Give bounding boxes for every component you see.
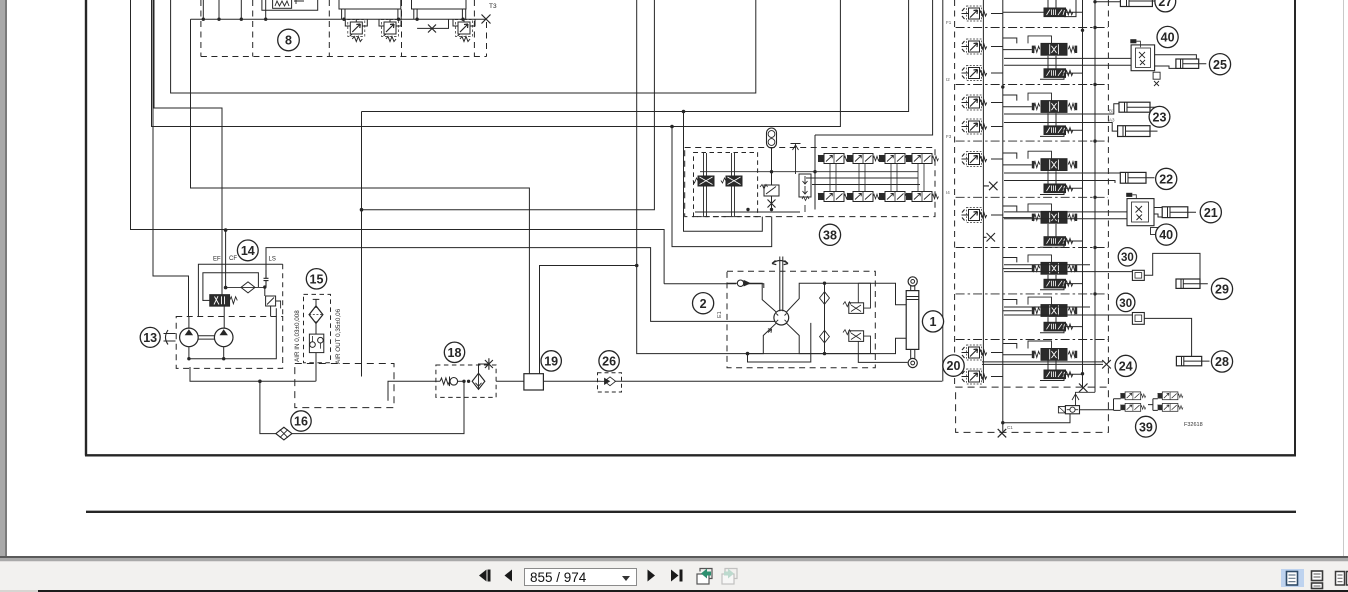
circle 23 (1149, 106, 1170, 127)
group 14 circle (237, 240, 258, 261)
page border frame right (1294, 0, 1296, 455)
S2 spool (1032, 43, 1077, 55)
footer rule (86, 511, 1296, 513)
S5 out wires to block 40 (1004, 212, 1127, 219)
svg-text:2: 2 (700, 297, 707, 311)
flow control valve 14 (203, 295, 237, 306)
pump P2 (214, 328, 233, 347)
junction dot (1081, 372, 1084, 375)
circle 22 (1156, 168, 1177, 189)
pressure bus tail (1002, 423, 1004, 432)
svg-text:21: 21 (1204, 206, 1218, 220)
plug line with X (417, 19, 448, 28)
X plug bottom (998, 429, 1007, 438)
bank tank bus B (1094, 0, 1096, 392)
S8 double outlet wire (982, 362, 1103, 365)
plugged port X (428, 25, 436, 33)
bus rail low (812, 184, 920, 186)
circle 15 (306, 269, 326, 289)
circle 39 (1136, 416, 1157, 437)
junction dot (1093, 0, 1096, 3)
svg-text:40: 40 (1161, 31, 1175, 45)
cylinder 22 (1120, 172, 1154, 183)
S1 comp wires (1003, 0, 1083, 17)
svg-text:20: 20 (947, 359, 961, 373)
continuous scroll icon (1312, 571, 1323, 589)
R8b port wires (379, 19, 401, 26)
single page view icon active (1281, 569, 1304, 587)
R8a port wires (345, 19, 367, 26)
S8 relief lower wire (991, 376, 1003, 378)
circle 30 lower (1117, 293, 1135, 311)
S2 relief lower wire (991, 72, 1003, 74)
S8 relief upper wire (991, 352, 1003, 354)
S3 comp wires (1040, 113, 1083, 136)
S8 comp wires (1040, 360, 1083, 380)
section divider 3 (956, 140, 1108, 142)
cylinder 29 (1176, 279, 1208, 288)
svg-text:23: 23 (1153, 110, 1167, 124)
S2 relief lower (962, 66, 987, 81)
circle 25 (1209, 54, 1230, 75)
solenoid valve 38 c3 top (879, 154, 912, 164)
cylinder 1 body (906, 291, 919, 350)
steering wheel symbol (772, 261, 788, 265)
wire y111.5 rail (362, 0, 909, 112)
circle 40 lower (1156, 224, 1177, 245)
manifold bus wire y19.2 (191, 18, 487, 20)
junction dot (258, 380, 262, 384)
svg-text:13: 13 (143, 331, 157, 345)
svg-text:I4: I4 (946, 190, 950, 195)
svg-text:T3: T3 (489, 3, 497, 10)
gauge tap 38 (791, 144, 801, 175)
S8 relief upper (962, 345, 987, 360)
S1 compensator (1044, 8, 1073, 17)
svg-text:8: 8 (285, 34, 292, 48)
bus rail mid (806, 177, 918, 179)
steering rotor (774, 310, 789, 325)
block 40b (1126, 193, 1157, 235)
S5 relief (962, 208, 987, 223)
cylinder 1 top stub (911, 286, 915, 291)
steering drain y362.3 (858, 354, 907, 363)
junction dot (224, 228, 228, 232)
fork 2 stem (1148, 399, 1158, 411)
wire 39 to solenoid forks (1080, 399, 1121, 411)
wire suction y381.3 left (190, 367, 316, 381)
S6 spool bridge (1028, 255, 1052, 263)
S5 spool bridge (1028, 204, 1052, 212)
wire x151.5 long y126.5 rail (152, 0, 841, 127)
svg-text:27: 27 (1158, 0, 1172, 9)
S5 X plug (983, 233, 995, 242)
junction dot (823, 282, 826, 285)
block 40a to cylinder 25 wires (1155, 55, 1197, 69)
shuttle diamond A (820, 292, 830, 305)
relief valve R8c (456, 20, 473, 42)
bank pressure bus P (1002, 0, 1004, 423)
S7 comp wires (1040, 317, 1083, 333)
solenoid valve 38 c1 bottom (818, 192, 851, 202)
S4 relief wire (991, 158, 1003, 160)
svg-text:19: 19 (544, 355, 558, 369)
R8c port wires (453, 19, 475, 26)
circle 38 (819, 224, 840, 245)
circle 21 (1200, 202, 1221, 223)
wire x170.6 y93 rail (171, 0, 756, 93)
group 38 dashed box (685, 148, 935, 217)
wire tank loop via check 16 (260, 381, 464, 433)
cut-off valve block C (412, 0, 467, 9)
relief valve 38 (760, 172, 779, 210)
pump P1 (180, 328, 199, 347)
svg-text:AIR OUT 0,35±0,06: AIR OUT 0,35±0,06 (335, 308, 342, 364)
circle 2 (693, 293, 714, 314)
bank tank bus A (1082, 0, 1084, 388)
circle 19 (541, 351, 561, 371)
junction dot (746, 208, 749, 211)
X plug 38 (768, 200, 776, 208)
solenoid valve 38 c2 top (847, 154, 880, 164)
spool valve 38a (693, 153, 714, 216)
block 30b to cylinder 28 wire (1144, 318, 1191, 356)
block 40b to cylinder 21 wire (1154, 208, 1162, 218)
svg-text:30: 30 (1121, 252, 1134, 264)
section divider 6 (956, 293, 1108, 295)
group 8 dashed enclosure (201, 0, 487, 57)
group 18 dashed box (436, 365, 496, 397)
S2 relief upper wire (991, 46, 1003, 48)
svg-text:30: 30 (1119, 298, 1132, 310)
svg-text:14: 14 (241, 244, 255, 258)
circle 8 (278, 29, 300, 51)
S6 compensator (1044, 279, 1073, 288)
block 30a to cylinder 29 wire (1144, 253, 1200, 279)
S3 relief lower wire (991, 126, 1003, 128)
pump inlet lines (189, 306, 224, 328)
cylinder 25 (1176, 59, 1206, 68)
steering bottom rail (748, 338, 907, 353)
block B drop pipes (342, 9, 402, 19)
section divider 4 (956, 196, 1108, 198)
block 19 (524, 374, 544, 390)
circle 20 (943, 355, 964, 376)
section divider 2 (956, 84, 1108, 86)
S6 feed wire (1003, 258, 1032, 269)
steering relief A (843, 283, 871, 313)
svg-text:15: 15 (310, 272, 324, 286)
svg-text:39: 39 (1139, 420, 1153, 434)
pressure valve 39 (1058, 406, 1079, 414)
relief valve R8b (382, 20, 399, 42)
wire x683.5 to group 38 (684, 112, 763, 232)
wire EF pair (225, 230, 227, 288)
svg-text:F1: F1 (946, 20, 952, 25)
svg-text:38: 38 (823, 228, 837, 242)
svg-text:I2: I2 (946, 77, 950, 82)
filter 14 (226, 282, 265, 293)
S7 spool bridge (1028, 297, 1052, 305)
X plug on sub box top (1079, 384, 1088, 393)
circle 26 (599, 351, 619, 371)
svg-text:40: 40 (1159, 228, 1173, 242)
section divider 5 (956, 247, 1108, 249)
S8 feed wire (1003, 344, 1032, 355)
accumulator 38 (767, 128, 777, 172)
svg-text:AIR IN 0,03±0,008: AIR IN 0,03±0,008 (294, 310, 301, 362)
svg-text:B3: B3 (1109, 109, 1115, 114)
fan bottom-left wire (748, 323, 777, 353)
breather drain (315, 353, 317, 382)
junction dot (635, 264, 639, 268)
divider bus dots (1001, 26, 1097, 296)
circle 16 (291, 411, 311, 431)
tank dashed box (295, 364, 394, 408)
steering relief B (843, 330, 871, 354)
cut-off valve block B (339, 0, 401, 9)
breather 15 dashed box (304, 294, 331, 362)
wire 18 to 19 (496, 380, 524, 382)
S4 feed wire (1003, 153, 1032, 165)
circle 27 (1155, 0, 1176, 12)
page border frame left (85, 0, 87, 456)
S5 relief wire (991, 214, 1003, 216)
junction dot (770, 170, 773, 173)
svg-text:A3: A3 (1109, 118, 1115, 123)
junction dot (1001, 421, 1004, 424)
S8 spool bridge (1028, 341, 1052, 349)
junction dot (462, 380, 465, 383)
svg-text:EF: EF (213, 257, 221, 263)
S1 relief wire (991, 13, 1003, 15)
wire x154 to CF (154, 0, 222, 295)
LS relief small (265, 287, 281, 316)
cut-off valve block A (262, 0, 318, 10)
solenoid column drops (830, 164, 924, 192)
S3 spool (1032, 101, 1077, 113)
wire 19 to 26 (543, 380, 942, 382)
group 38 inner dashed box (694, 153, 758, 217)
svg-text:22: 22 (1159, 173, 1173, 187)
fan top-right wire (787, 283, 859, 312)
block 30a (1132, 270, 1144, 280)
S3 feed wire (1003, 95, 1032, 107)
flow arrow (768, 329, 772, 333)
wire vertical x130 to steering (131, 0, 665, 284)
S4 compensator (1044, 184, 1073, 193)
circle 18 (444, 342, 464, 362)
S2 comp wires (1040, 56, 1083, 79)
S2 spool bridge (1028, 36, 1052, 44)
reducing valve 38 (799, 174, 811, 212)
S7 feed wire (1003, 300, 1032, 311)
svg-text:E1: E1 (717, 311, 723, 318)
S2 compensator (1044, 69, 1073, 78)
S4 comp wires (1040, 171, 1083, 194)
two page view icon (1336, 572, 1348, 586)
svg-text:LS: LS (269, 257, 276, 263)
valve A spring detail (273, 0, 304, 8)
solenoid valve 38 c2 bottom (847, 192, 880, 202)
junction dot (670, 125, 674, 129)
wire steering feed y283.7 (664, 284, 764, 288)
block 30b (1132, 313, 1144, 325)
cylinder 21 (1162, 207, 1196, 218)
S2 out wires to block 40 (1004, 58, 1131, 65)
svg-text:16: 16 (294, 415, 308, 429)
T3 port X (482, 15, 491, 24)
rotor port ticks (776, 314, 786, 322)
shuttle line (824, 283, 826, 353)
svg-text:C1: C1 (1007, 425, 1013, 430)
section divider 7 (956, 339, 1108, 341)
riser wires into bus (203, 0, 265, 19)
cylinder 23 lower (1118, 126, 1158, 137)
bottom sub box dashed (956, 387, 1109, 432)
junction dot (682, 110, 686, 114)
svg-text:1: 1 (930, 315, 937, 329)
steering column (780, 257, 783, 312)
valve bank left dashed edge (954, 0, 956, 387)
pump group 13 dashed box (176, 317, 283, 369)
circle 28 (1211, 351, 1232, 372)
wire y210 (362, 0, 655, 210)
fan top-left wire (750, 283, 776, 312)
junction dot (823, 352, 826, 355)
S4 out wires (1004, 173, 1120, 183)
steering check valve (727, 280, 750, 286)
wire y135 pilot (815, 0, 933, 210)
check valve 16 (276, 427, 292, 440)
next page button (648, 570, 656, 582)
S3 compensator (1044, 126, 1073, 135)
junction dot LS (263, 285, 266, 288)
svg-text:29: 29 (1215, 283, 1229, 297)
group 14 box (198, 264, 282, 316)
S4 spool bridge (1028, 151, 1052, 159)
S8 spool (1032, 349, 1077, 361)
shuttle diamond B (820, 330, 830, 343)
section divider 1 (956, 27, 1108, 29)
svg-text:26: 26 (602, 355, 616, 369)
solenoid valve 38 c3 bottom (879, 192, 912, 202)
valve 39 drain loop (1003, 414, 1070, 423)
check ball 18 (450, 377, 465, 387)
junction dot (467, 380, 470, 383)
valve bank right dashed edge (1107, 0, 1109, 387)
wire x190.5 to block 19 (191, 19, 530, 374)
circle 29 (1211, 278, 1232, 299)
junction dot (224, 286, 228, 290)
circle 40 upper (1157, 26, 1178, 47)
circle 30 upper (1118, 248, 1136, 266)
svg-text:F3: F3 (946, 134, 952, 139)
svg-text:28: 28 (1215, 355, 1229, 369)
valve 14 bypass loop (203, 273, 259, 301)
S5 spool (1032, 211, 1077, 223)
S3 relief lower (962, 119, 987, 134)
filter 18 (472, 373, 485, 389)
relief valve R8a (348, 20, 365, 42)
S4 relief (962, 152, 987, 167)
solenoid valve 38 c4 bottom (906, 192, 939, 202)
breather check block (309, 321, 323, 352)
S6 spool (1032, 262, 1077, 274)
solenoid valve 38 c4 top (906, 154, 939, 164)
supply riser x942.8 (942, 0, 944, 381)
fan bottom-right wire (787, 323, 859, 353)
junction dot (187, 357, 190, 360)
steering LS drain loop (748, 323, 811, 362)
check valve 26 (601, 377, 616, 386)
S3 out wires (1004, 104, 1119, 131)
solenoid valve 39 p1 top (1120, 392, 1145, 400)
pump case drain rail (189, 308, 276, 359)
check valve 26 dashed box (598, 373, 622, 392)
vent cap (313, 299, 320, 308)
S6 out wire (1004, 265, 1132, 272)
first page button (479, 570, 491, 582)
wire x672 to group 38 (672, 127, 772, 247)
solenoid valve 39 p2 top (1158, 392, 1183, 400)
S5 compensator (1044, 237, 1073, 246)
wire x362.9 to tank (361, 112, 363, 377)
S1 out wire (1095, 1, 1120, 3)
S7 out wire (1004, 307, 1132, 315)
junction dot (746, 352, 750, 356)
bank LS bus (982, 0, 984, 383)
S8 compensator (1044, 370, 1073, 379)
circle 13 (140, 327, 160, 347)
S7 compensator (1044, 322, 1073, 331)
orifice 18 (440, 378, 450, 385)
S5 feed wire (1003, 206, 1032, 218)
S2 relief upper (962, 39, 987, 54)
cylinder 1 piston (906, 297, 919, 300)
next view icon (disabled) (722, 569, 737, 585)
circle 1 (922, 311, 943, 332)
svg-text:CF: CF (229, 256, 237, 262)
bypass star 18 (479, 358, 493, 373)
bus rail bottom (695, 211, 800, 213)
cylinder 1 top eye (908, 277, 917, 286)
previous page button (505, 570, 513, 582)
S7 spool (1032, 305, 1077, 317)
S3 spool bridge (1028, 93, 1052, 101)
wire block19 up x539.5 (540, 266, 636, 375)
S1 relief (962, 6, 987, 21)
cylinder 1 rod (911, 349, 915, 358)
S2 feed wire (1003, 38, 1032, 50)
previous view icon (697, 569, 712, 585)
S4 X plug (983, 182, 997, 191)
solenoid valve 38 c1 top (818, 154, 851, 164)
wire tank stub (388, 381, 440, 401)
junction dot (813, 170, 816, 173)
steering unit dashed box (727, 271, 875, 368)
node dots on bus (202, 18, 465, 21)
bus rail top (700, 171, 918, 173)
solenoid valve 39 p2 bottom (1158, 404, 1183, 412)
junction dot (222, 357, 225, 360)
cylinder 1 bottom eye (908, 358, 917, 367)
drive shaft symbol (164, 330, 176, 345)
S4 spool (1032, 159, 1077, 171)
svg-text:F32618: F32618 (1184, 422, 1203, 428)
page border frame bottom (85, 454, 1296, 456)
spool valve 38b (721, 153, 742, 216)
